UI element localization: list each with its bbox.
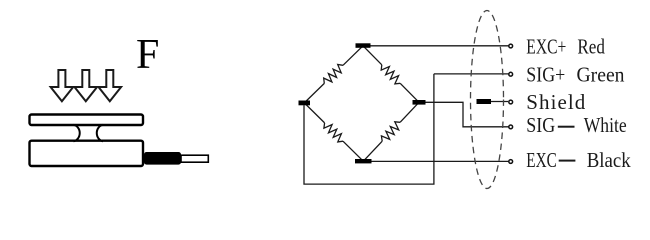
svg-text:Green: Green xyxy=(577,63,625,87)
svg-text:SIG: SIG xyxy=(526,113,555,137)
svg-text:White: White xyxy=(584,113,627,137)
svg-text:F: F xyxy=(136,32,159,78)
svg-text:EXC+: EXC+ xyxy=(526,35,566,59)
svg-text:Red: Red xyxy=(577,35,605,59)
svg-text:Black: Black xyxy=(587,148,631,172)
svg-text:Shield: Shield xyxy=(526,90,586,114)
svg-text:SIG+: SIG+ xyxy=(526,63,565,87)
svg-text:EXC: EXC xyxy=(526,148,557,172)
